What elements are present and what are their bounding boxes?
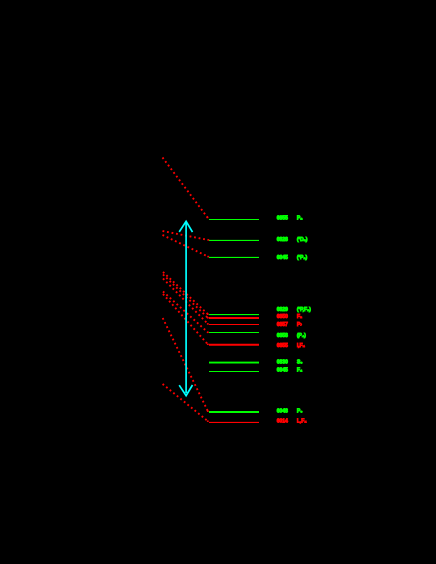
- svg-text:(³P,F₂): (³P,F₂): [297, 307, 311, 313]
- svg-text:6858: 6858: [277, 333, 288, 339]
- svg-text:S₀: S₀: [297, 359, 303, 365]
- svg-text:6845: 6845: [277, 368, 288, 374]
- svg-text:6855: 6855: [277, 216, 288, 222]
- svg-text:I,F₄: I,F₄: [297, 343, 306, 349]
- svg-text:F₄: F₄: [297, 368, 303, 374]
- svg-text:6830: 6830: [277, 359, 288, 365]
- svg-text:6857: 6857: [277, 322, 288, 328]
- svg-text:P₂: P₂: [297, 216, 303, 222]
- svg-text:(³P₂): (³P₂): [297, 255, 308, 261]
- svg-text:P₀: P₀: [297, 408, 303, 414]
- svg-text:(¹D₂): (¹D₂): [297, 237, 308, 243]
- svg-text:F₂: F₂: [297, 314, 303, 320]
- svg-text:L,F₄: L,F₄: [297, 419, 307, 425]
- svg-text:6829: 6829: [277, 307, 288, 313]
- svg-text:(P₄): (P₄): [297, 333, 306, 339]
- svg-text:6048: 6048: [277, 408, 288, 414]
- svg-text:6828: 6828: [277, 237, 288, 243]
- svg-text:6855: 6855: [277, 343, 288, 349]
- svg-text:P›: P›: [297, 322, 302, 328]
- svg-text:6850: 6850: [277, 314, 288, 320]
- svg-text:6014: 6014: [277, 419, 288, 425]
- svg-text:6845: 6845: [277, 255, 288, 261]
